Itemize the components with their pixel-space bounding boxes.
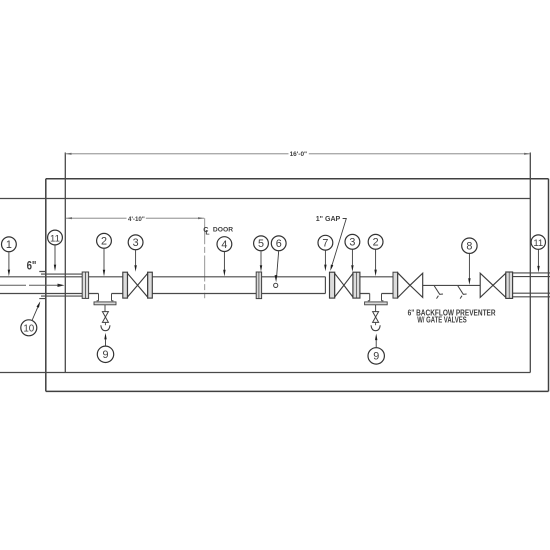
svg-text:3: 3 bbox=[133, 237, 139, 249]
svg-text:2: 2 bbox=[373, 237, 379, 249]
svg-text:1" GAP: 1" GAP bbox=[316, 215, 341, 223]
svg-text:1: 1 bbox=[6, 239, 12, 251]
svg-text:2: 2 bbox=[101, 236, 107, 248]
svg-text:6: 6 bbox=[276, 238, 282, 250]
svg-text:5: 5 bbox=[258, 238, 264, 250]
svg-text:9: 9 bbox=[102, 349, 108, 361]
svg-text:6": 6" bbox=[27, 259, 37, 273]
svg-text:16'-0": 16'-0" bbox=[290, 151, 308, 158]
svg-text:L: L bbox=[205, 230, 209, 237]
svg-text:3: 3 bbox=[349, 237, 355, 249]
svg-text:W/ GATE VALVES: W/ GATE VALVES bbox=[417, 316, 467, 325]
svg-text:11: 11 bbox=[533, 238, 543, 249]
svg-text:DOOR: DOOR bbox=[213, 227, 233, 234]
svg-text:7: 7 bbox=[322, 238, 328, 250]
svg-text:4: 4 bbox=[221, 239, 227, 251]
svg-text:10: 10 bbox=[23, 324, 34, 335]
svg-text:8: 8 bbox=[466, 241, 472, 253]
svg-text:9: 9 bbox=[373, 351, 379, 363]
svg-text:4'-10": 4'-10" bbox=[128, 216, 145, 223]
svg-text:11: 11 bbox=[50, 233, 60, 244]
